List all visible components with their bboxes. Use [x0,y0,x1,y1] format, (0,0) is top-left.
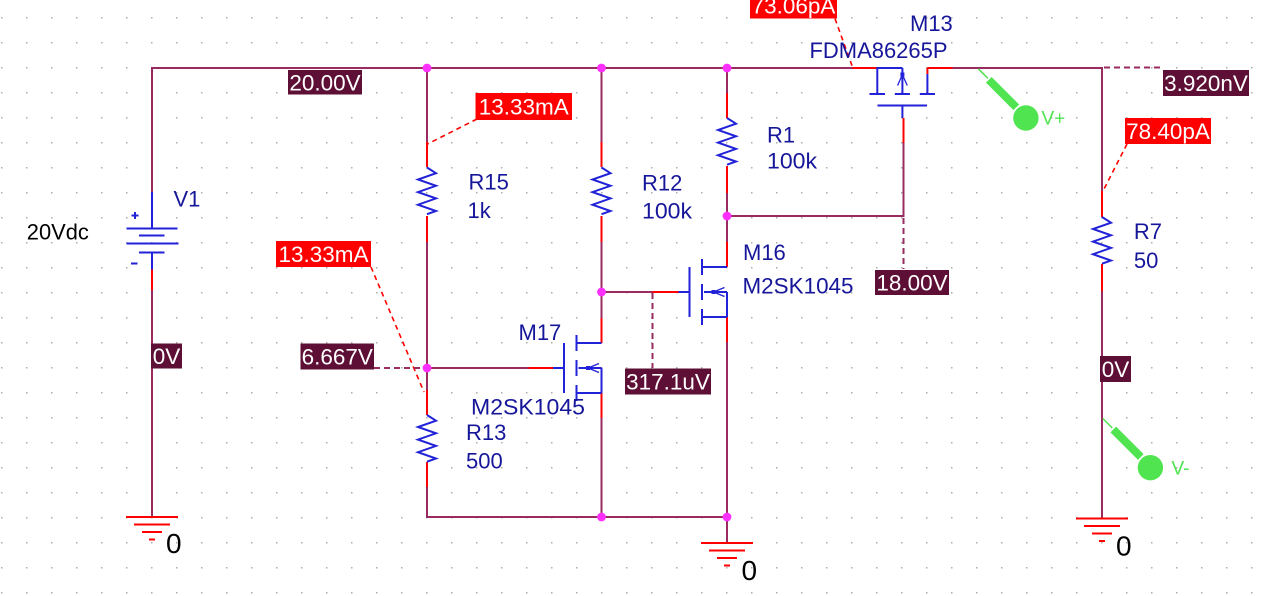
svg-text:0: 0 [742,555,758,586]
svg-text:500: 500 [466,449,503,474]
svg-text:R15: R15 [469,170,509,195]
svg-text:0V: 0V [153,344,181,369]
svg-text:M2SK1045: M2SK1045 [743,274,854,299]
svg-text:R13: R13 [466,420,506,445]
svg-text:13.33mA: 13.33mA [278,242,368,267]
svg-text:13.33mA: 13.33mA [479,95,569,120]
svg-text:78.40pA: 78.40pA [1126,119,1210,144]
svg-text:R7: R7 [1134,219,1162,244]
svg-text:M16: M16 [743,240,786,265]
svg-text:3.920nV: 3.920nV [1164,71,1248,96]
svg-text:0V: 0V [1102,357,1130,382]
svg-text:V+: V+ [1042,109,1066,130]
svg-text:M2SK1045: M2SK1045 [471,395,585,420]
svg-text:100k: 100k [767,149,818,174]
svg-text:R12: R12 [642,171,682,196]
svg-text:M13: M13 [910,11,953,36]
svg-text:V-: V- [1172,459,1190,480]
svg-text:20Vdc: 20Vdc [27,220,89,245]
svg-text:100k: 100k [642,199,693,224]
svg-text:0: 0 [1116,531,1132,562]
svg-text:M17: M17 [519,320,562,345]
svg-text:18.00V: 18.00V [876,271,947,296]
svg-text:6.667V: 6.667V [302,345,373,370]
svg-text:317.1uV: 317.1uV [626,370,710,395]
svg-text:FDMA86265P: FDMA86265P [810,38,948,63]
svg-text:R1: R1 [767,123,795,148]
svg-text:1k: 1k [468,198,492,223]
svg-text:20.00V: 20.00V [289,70,360,95]
svg-text:73.06pA: 73.06pA [752,0,836,19]
svg-text:0: 0 [166,528,182,559]
svg-text:V1: V1 [174,187,201,212]
svg-text:50: 50 [1134,248,1158,273]
